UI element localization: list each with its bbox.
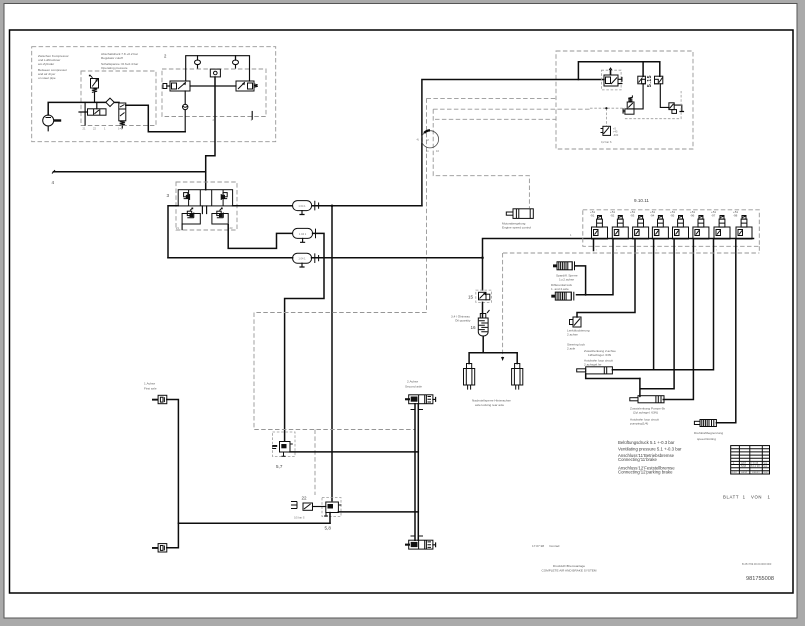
- svg-text:22: 22: [302, 496, 308, 501]
- svg-text:1 04 1: 1 04 1: [299, 232, 307, 236]
- svg-text:First axle: First axle: [144, 387, 157, 391]
- svg-text:-91: -91: [590, 213, 595, 217]
- wire relay 5,7 to second axle: [290, 451, 418, 453]
- dashed pilot line long: [433, 108, 590, 110]
- governor port stub: [251, 112, 253, 120]
- dashed mid enclosure: [254, 313, 427, 430]
- svg-text:M: M: [427, 138, 429, 142]
- svg-text:5.15: 5.15: [647, 75, 653, 87]
- svg-text:Druckluft=Bremsanlage: Druckluft=Bremsanlage: [553, 564, 586, 568]
- dashed box quantity valve 15: [476, 290, 492, 302]
- wire dryer out to governor circuit: [126, 105, 185, 132]
- solenoid valve 8: [736, 216, 752, 240]
- svg-text:-93: -93: [630, 213, 635, 217]
- junction trunk tee: [331, 205, 334, 208]
- svg-text:Aend: Aend: [741, 470, 748, 474]
- dashed enclosure top-right group: [556, 51, 693, 149]
- drain valve: [601, 126, 619, 144]
- park brake chamber right: [512, 364, 523, 390]
- note text between compressor and dryer: [38, 54, 69, 80]
- wire main supply trunk to top-right group: [422, 80, 604, 206]
- wire circuit 1 supply to reservoir: [168, 206, 293, 258]
- junction drain pilot: [605, 107, 607, 109]
- dryer cartridge valve: [119, 103, 126, 128]
- wire output 3 to steering lock valve: [577, 239, 635, 317]
- svg-text:Ventilating pressure 5.1 +-0.3: Ventilating pressure 5.1 +-0.3 bar: [618, 447, 682, 452]
- unloader valve group2: [163, 81, 190, 91]
- svg-text:(2yl.achsgel. 63N): (2yl.achsgel. 63N): [633, 411, 658, 415]
- wire first axle loop: [167, 400, 179, 548]
- junction manifold feed tee: [481, 256, 484, 259]
- brake chamber first axle front: [152, 395, 167, 403]
- speed limiting label: [694, 431, 723, 441]
- aux steering cylinder: [577, 367, 613, 374]
- air reservoir 2: [293, 228, 316, 242]
- wire manifold output 1 stub: [593, 239, 595, 251]
- svg-text:Operating pressure: Operating pressure: [101, 66, 128, 70]
- svg-text:-97: -97: [711, 213, 716, 217]
- wire output 5 to aux pump cylinder: [640, 239, 674, 396]
- svg-text:Regulator cutoff: Regulator cutoff: [101, 56, 123, 60]
- svg-text:on steel pipe: on steel pipe: [38, 76, 56, 80]
- svg-text:axle locking rear axle: axle locking rear axle: [475, 403, 504, 407]
- svg-text:1. and 2.axle: 1. and 2.axle: [551, 287, 569, 291]
- svg-text:speed limiting: speed limiting: [697, 437, 716, 441]
- svg-text:981755008: 981755008: [746, 576, 774, 582]
- svg-text:2.axle: 2.axle: [567, 347, 576, 351]
- wire switch 22 to valve 5,8: [313, 506, 326, 508]
- svg-text:4(: 4(: [417, 138, 419, 142]
- wire output 8 to speed limit cylinder: [716, 239, 735, 423]
- differential lock label: [551, 274, 578, 291]
- speed limiting cylinder: [694, 419, 716, 427]
- wire feed riser to manifold: [483, 239, 754, 291]
- steering lock label: [567, 329, 590, 351]
- wire main drop from group 2: [206, 77, 215, 190]
- engine speed control cylinder: [506, 209, 533, 219]
- svg-text:Öil quantity: Öil quantity: [455, 319, 471, 323]
- svg-text:Connecting’11’brake: Connecting’11’brake: [618, 457, 657, 462]
- wire compressor to dryer: [48, 102, 106, 115]
- svg-text:1 04 1: 1 04 1: [298, 204, 306, 208]
- wire output 2 to diff lock cylinders: [575, 239, 613, 295]
- parking valve 5,8: [324, 502, 341, 516]
- note text cutoff pressure: [101, 52, 138, 70]
- svg-text:2.Achse: 2.Achse: [407, 380, 418, 384]
- spring brake valve second axle top: [405, 395, 436, 404]
- svg-text:Belüftungsdruck 5.1 +-0.3 bar: Belüftungsdruck 5.1 +-0.3 bar: [618, 440, 675, 445]
- wire top rail group2: [186, 56, 250, 81]
- pressure regulator on dryer: [89, 75, 98, 102]
- svg-text:Drehkraftbegrenzung: Drehkraftbegrenzung: [694, 431, 723, 435]
- solenoid valve 2: [612, 216, 628, 240]
- wire reservoir 3 feed line: [168, 257, 483, 259]
- svg-text:-94: -94: [650, 213, 655, 217]
- svg-text:9.10.11: 9.10.11: [634, 198, 649, 203]
- three chamber valve: [79, 102, 106, 125]
- dashed governor sub-box: [162, 69, 266, 117]
- svg-text:5,8: 5,8: [325, 526, 332, 531]
- governor valve group2: [236, 81, 258, 91]
- unloader valve U1: [604, 68, 622, 86]
- wire V3 down to V4: [660, 84, 669, 108]
- dashed pilot drop with arrow: [501, 253, 504, 361]
- relay valve 5,7: [272, 442, 293, 457]
- wire valve 15 to oiler: [482, 302, 484, 317]
- pressure test gauge: [417, 130, 440, 153]
- aux pump cylinder label: [630, 407, 665, 426]
- svg-text:Connecting’12’parking brake: Connecting’12’parking brake: [618, 470, 673, 475]
- svg-text:-96: -96: [690, 213, 695, 217]
- svg-text:8.12 98: 8.12 98: [751, 464, 760, 468]
- protection valve block body: [178, 190, 232, 206]
- differential lock cylinder lower: [551, 292, 574, 301]
- solenoid valve 4: [652, 216, 668, 240]
- svg-text:COMPLETE AIR AND BRAKE SYSTEM: COMPLETE AIR AND BRAKE SYSTEM: [541, 569, 596, 573]
- dashed sub-box unloader: [601, 70, 621, 90]
- svg-text:Second axle: Second axle: [405, 385, 422, 389]
- wire output 4 tee to steering cylinder line: [653, 239, 655, 370]
- dashed manifold enclosure: [583, 210, 760, 247]
- dashed box parking valve 5,8: [322, 498, 341, 517]
- svg-text:5,7: 5,7: [276, 464, 283, 469]
- wire oiler to brake chambers: [469, 337, 517, 364]
- svg-text:4: 4: [52, 180, 55, 185]
- manifold port number labels: [596, 250, 740, 252]
- wire second axle risers: [415, 404, 418, 541]
- solenoid valve 3: [633, 216, 649, 240]
- svg-text:0,5 bar S: 0,5 bar S: [294, 516, 305, 520]
- park brake chamber left: [464, 364, 475, 390]
- svg-text:5/98: 5/98: [741, 464, 747, 468]
- wire diamond to dryer valve: [114, 101, 119, 103]
- solenoid valve 6: [693, 216, 709, 240]
- dashed control line from gauge area to right group: [427, 98, 557, 119]
- dashed enclosure box 2: [32, 47, 276, 142]
- safety relief box top center: [210, 69, 220, 77]
- dashed box relay valve 5,7: [273, 432, 296, 457]
- svg-text:17.07.98 Conrad: 17.07.98 Conrad: [532, 544, 560, 548]
- wire reservoir 1 to trunk: [312, 205, 422, 207]
- svg-text:1u.2.achse: 1u.2.achse: [559, 278, 574, 282]
- wire block3 to reservoir 2: [228, 225, 292, 249]
- svg-text:BLATT 1 VON 1: BLATT 1 VON 1: [723, 495, 771, 500]
- wire top rail right group: [578, 62, 659, 80]
- svg-text:1.Achse: 1.Achse: [144, 382, 155, 386]
- aux pump cylinder: [630, 396, 664, 403]
- port ticks second axle risers: [411, 410, 424, 537]
- wire output 7 to steering cylinder: [612, 239, 713, 370]
- pilot valve V3: [655, 76, 663, 84]
- pressure switch 22: [291, 496, 313, 520]
- protection valve lower left: [182, 208, 200, 224]
- dashed box lower right group: [503, 246, 759, 253]
- solenoid valve 1: [592, 216, 608, 240]
- air reservoir 1: [293, 201, 319, 215]
- metering valve 15: [479, 292, 490, 300]
- pressure limiter V5: [623, 95, 634, 114]
- svg-text:-98: -98: [733, 213, 738, 217]
- wire unloader to governor: [190, 85, 236, 87]
- svg-text:-95: -95: [670, 213, 675, 217]
- wire park brake line bottom: [178, 522, 330, 524]
- oiler 16: [478, 310, 489, 336]
- protection valve lower right: [212, 208, 228, 224]
- steering lock valve: [570, 317, 582, 327]
- svg-text:-92: -92: [610, 213, 615, 217]
- svg-text:15: 15: [468, 295, 474, 300]
- svg-text:Nam: Nam: [763, 470, 768, 474]
- dashed pilot line to drain valve: [590, 108, 625, 126]
- svg-text:0,2 bar S: 0,2 bar S: [601, 140, 612, 144]
- svg-text:B.25=799.00.00.000=003: B.25=799.00.00.000=003: [742, 562, 772, 566]
- svg-text:pumping(1/4): pumping(1/4): [630, 422, 648, 426]
- wires block3 center column: [202, 206, 206, 214]
- safety valve ellipse right: [233, 56, 239, 68]
- safety valve ellipse left: [195, 56, 201, 68]
- svg-text:Engine speed control: Engine speed control: [502, 226, 531, 230]
- svg-text:-400: -400: [613, 133, 619, 137]
- svg-text:12l/achsgel. 63N: 12l/achsgel. 63N: [588, 353, 611, 357]
- differential lock cylinder upper: [553, 261, 575, 270]
- wire output 6 to aux cylinder rear port: [663, 239, 693, 400]
- solenoid valve 7: [714, 216, 730, 240]
- svg-text:Zust: Zust: [732, 470, 737, 474]
- svg-text:3: 3: [167, 193, 170, 198]
- dashed drop to pressure switch: [314, 430, 316, 496]
- junction diff lock: [585, 294, 587, 296]
- svg-text:am Zylinder: am Zylinder: [38, 62, 54, 66]
- port stub block3 bottom-left: [181, 224, 183, 230]
- air reservoir 3: [293, 253, 319, 267]
- relay valve V4: [669, 103, 684, 114]
- brake chamber first axle rear: [152, 544, 167, 552]
- compressor: [43, 115, 62, 131]
- svg-text:Spt: Spt: [763, 464, 767, 468]
- filter check diamond: [106, 98, 114, 106]
- check symbol circuit 1: [184, 193, 190, 200]
- pilot valve V2: [638, 76, 646, 84]
- wire valve 5,8 outputs: [330, 512, 418, 523]
- svg-text:16: 16: [471, 325, 477, 330]
- dashed air dryer sub-box: [81, 71, 156, 126]
- revision table grid: [731, 446, 770, 474]
- dashed sub-box V4 V5: [625, 91, 681, 119]
- dashed line down to engine speed cylinder: [427, 98, 530, 312]
- svg-text:2.achsgel.ler: 2.achsgel.ler: [584, 363, 602, 367]
- svg-text:1=2: 1=2: [118, 127, 123, 131]
- dashed enclosure block 3: [176, 182, 237, 230]
- wire V2 down to limiter: [634, 84, 643, 109]
- svg-text:1 04 1: 1 04 1: [298, 257, 306, 261]
- node 4 supply line: [54, 171, 206, 173]
- check symbol circuit 2: [221, 193, 227, 200]
- check valve: [183, 91, 188, 132]
- svg-text:Datum: Datum: [752, 470, 760, 474]
- wire trunk down to parking valve: [331, 206, 333, 501]
- wire reservoir 2 to lower circuit: [285, 233, 324, 440]
- solenoid valve 5: [673, 216, 689, 240]
- aux steering cylinder label: [584, 349, 616, 367]
- wire aux steering cylinder lower port: [586, 374, 640, 379]
- spring brake valve second axle bottom: [405, 540, 436, 549]
- svg-text:2.achse: 2.achse: [567, 333, 578, 337]
